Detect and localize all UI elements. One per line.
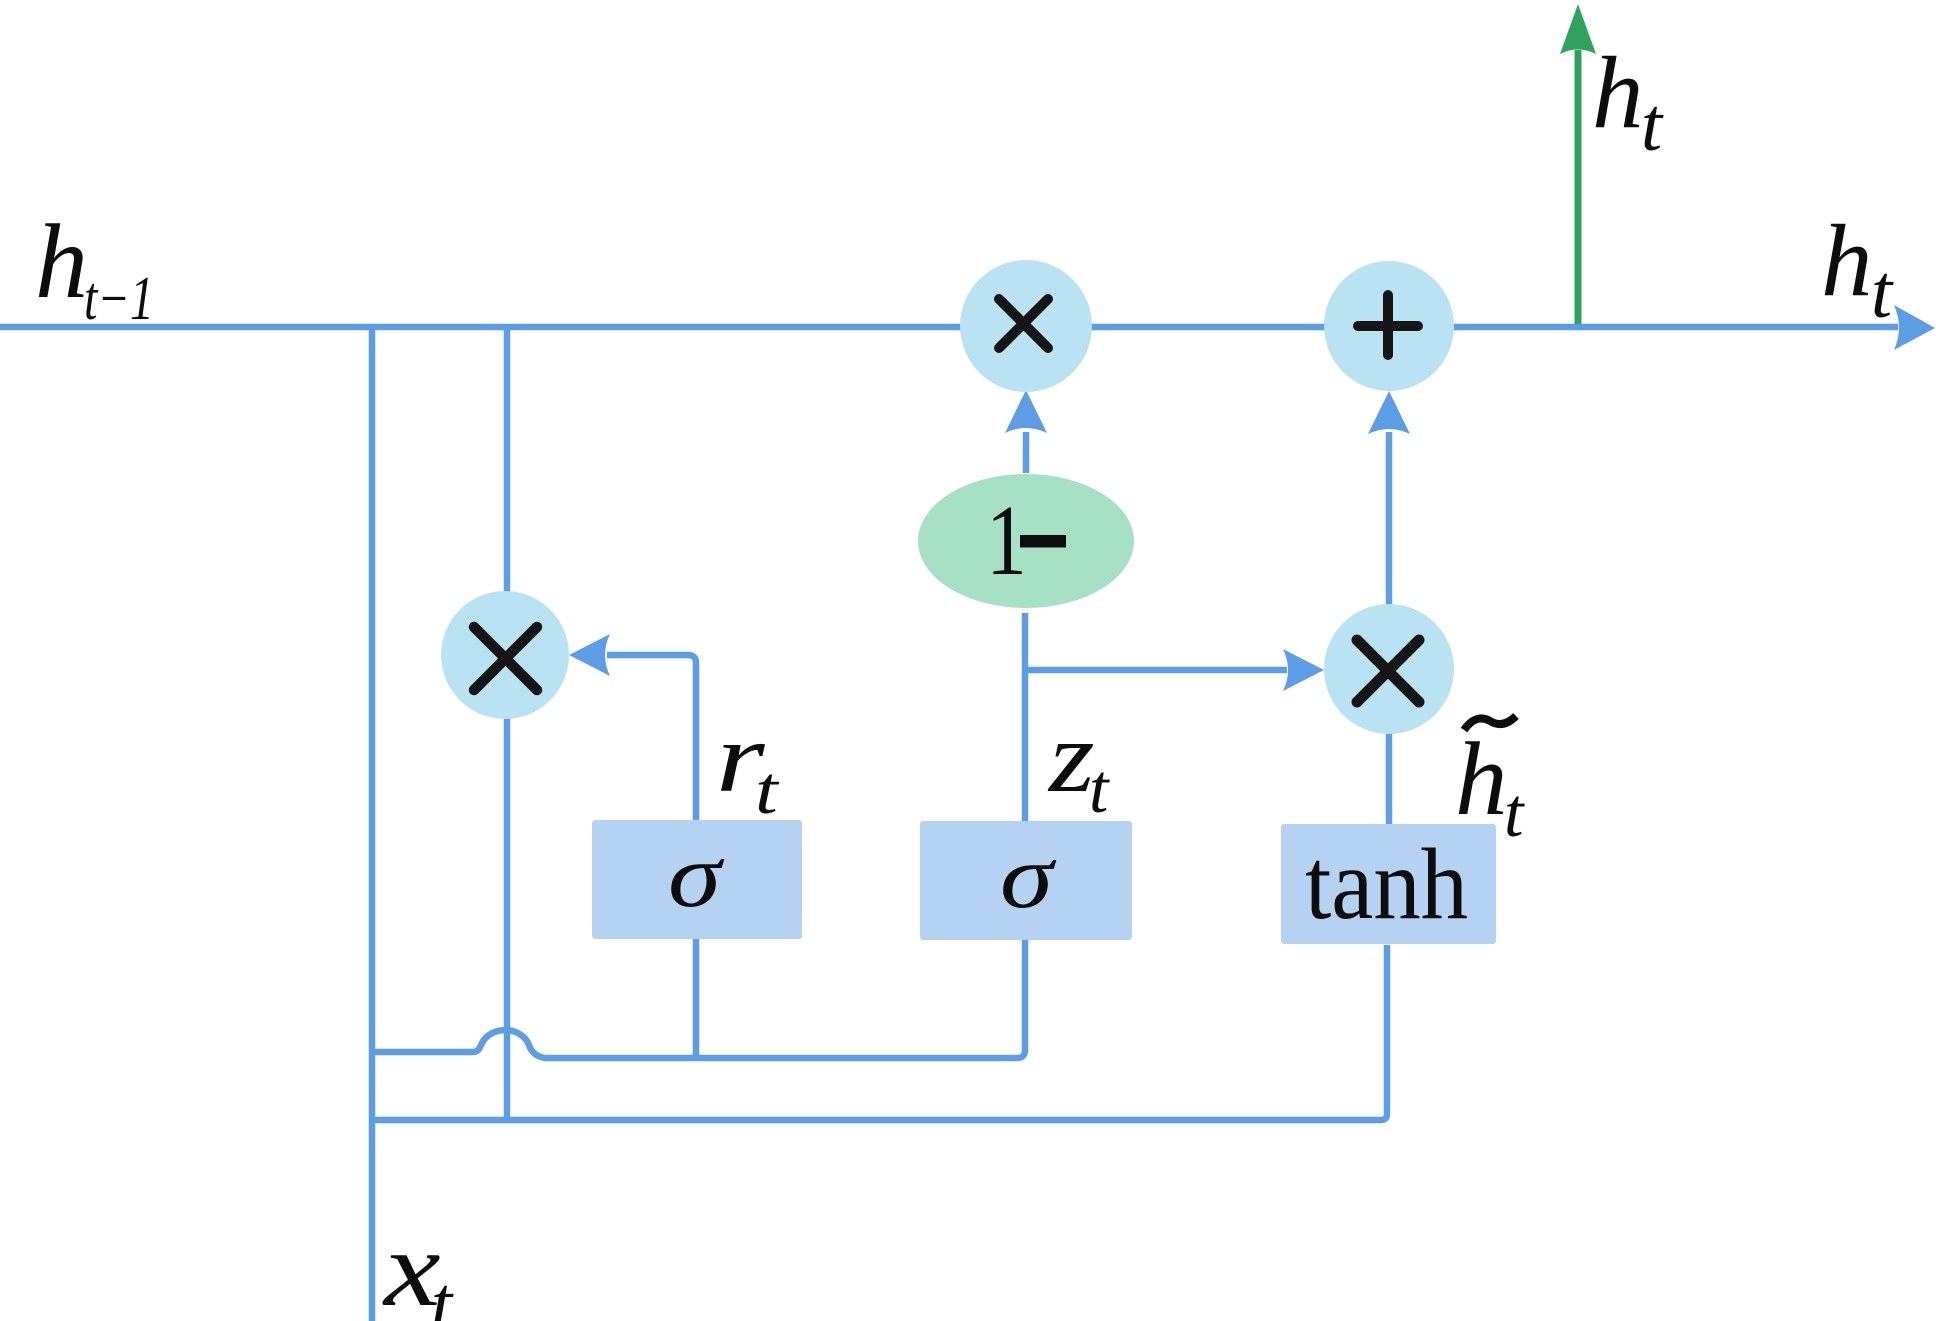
svg-text:tanh: tanh	[1305, 828, 1468, 941]
svg-text:σ: σ	[668, 825, 725, 926]
svg-text:t: t	[1504, 775, 1525, 852]
svg-text:h: h	[1592, 36, 1644, 150]
svg-text:t: t	[431, 1262, 454, 1321]
svg-text:σ: σ	[1000, 826, 1057, 927]
svg-text:t: t	[1641, 83, 1664, 167]
svg-text:t−1: t−1	[84, 265, 154, 333]
svg-text:t: t	[755, 753, 780, 828]
svg-text:h: h	[1821, 204, 1873, 318]
svg-text:z: z	[1047, 700, 1095, 813]
svg-text:t: t	[1089, 751, 1110, 828]
svg-text:t: t	[1871, 250, 1894, 334]
svg-text:h: h	[35, 203, 88, 320]
svg-text:h: h	[1455, 720, 1508, 837]
